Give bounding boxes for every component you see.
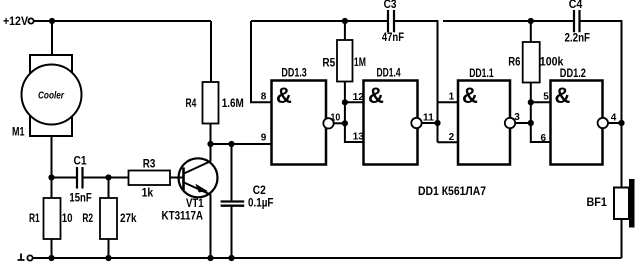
svg-text:C4: C4: [569, 0, 583, 11]
svg-text:1.6M: 1.6M: [222, 97, 244, 110]
bubble DD1.3 out: [323, 118, 333, 128]
wire C3 right to corner: [395, 21, 438, 142]
ground: [18, 254, 25, 261]
wire pin8 feed: [251, 21, 272, 102]
node junction pin12: [342, 99, 348, 105]
svg-text:R3: R3: [143, 157, 156, 170]
svg-text:13: 13: [353, 132, 365, 143]
node junction R2 bottom: [105, 255, 111, 261]
wire to C1: [52, 177, 77, 179]
node junction C1 left: [48, 174, 54, 180]
svg-text:4: 4: [611, 112, 617, 123]
bubble DD1.1 out: [505, 118, 515, 128]
resistor R1: [51, 178, 53, 199]
svg-text:R5: R5: [322, 57, 335, 70]
wire pin9 row: [211, 143, 272, 145]
svg-text:DD1.1: DD1.1: [469, 67, 494, 80]
wire right top rail: [443, 20, 573, 22]
node junction C2 bottom: [228, 255, 234, 261]
wire C4 right to speaker rail: [581, 21, 622, 188]
resistor R2: [108, 178, 110, 199]
svg-text:6: 6: [541, 133, 547, 144]
gate DD1.4: [364, 81, 418, 165]
wire pin5 stub: [531, 101, 551, 103]
svg-text:BF1: BF1: [587, 196, 608, 209]
svg-text:C3: C3: [384, 0, 397, 11]
wire out10: [334, 122, 345, 124]
svg-text:10: 10: [331, 113, 341, 124]
node junction C2 top: [228, 141, 234, 147]
node junction out11: [434, 120, 440, 126]
transistor VT1: [179, 158, 218, 197]
svg-text:C1: C1: [74, 154, 87, 167]
wire out4: [608, 122, 622, 124]
wire emitter down: [210, 195, 212, 259]
svg-text:C2: C2: [253, 184, 267, 197]
node junction R5 top: [342, 18, 348, 24]
svg-text:8: 8: [261, 91, 267, 102]
svg-text:DD1 К561ЛА7: DD1 К561ЛА7: [418, 185, 486, 198]
resistor R6: [530, 21, 532, 42]
svg-text:DD1.4: DD1.4: [377, 67, 401, 80]
svg-text:1: 1: [449, 92, 455, 103]
capacitor C3: [388, 10, 394, 32]
wire motor feed: [51, 21, 53, 55]
wire pin2 stub: [438, 141, 459, 143]
svg-text:47nF: 47nF: [382, 31, 404, 44]
svg-text:&: &: [368, 83, 384, 108]
wire C1 to R3: [84, 177, 129, 179]
wire out3: [515, 122, 531, 124]
gate DD1.2: [551, 81, 603, 165]
wire motor to C1 row: [51, 136, 53, 178]
bubble DD1.2 out: [598, 118, 608, 128]
svg-text:Cooler: Cooler: [38, 89, 65, 101]
wire collector up: [210, 144, 212, 161]
terminal ground: [27, 255, 32, 260]
svg-text:R4: R4: [186, 97, 197, 110]
svg-text:DD1.2: DD1.2: [560, 67, 586, 80]
svg-text:27k: 27k: [120, 212, 137, 225]
svg-text:R2: R2: [82, 212, 93, 225]
wire speaker bottom: [621, 219, 623, 258]
node junction emitter bottom: [207, 255, 213, 261]
svg-text:3: 3: [514, 112, 520, 123]
node junction R2 top: [105, 174, 111, 180]
capacitor C1: [77, 167, 83, 189]
capacitor C4: [574, 10, 580, 32]
capacitor C2: [231, 144, 233, 200]
node junction out4: [618, 120, 624, 126]
svg-text:5: 5: [543, 92, 549, 103]
gate DD1.1: [458, 81, 510, 165]
resistor R3: [129, 171, 171, 186]
node junction pin5: [528, 99, 534, 105]
resistor R4: [210, 21, 212, 82]
wire R3 to base: [170, 177, 184, 179]
speaker BF1: [614, 188, 629, 220]
node junction out10: [342, 120, 348, 126]
wire pin1 stub: [438, 101, 459, 103]
wire out11: [422, 122, 438, 124]
terminal +12V: [28, 18, 33, 23]
svg-text:VT1: VT1: [186, 197, 204, 210]
svg-text:10: 10: [62, 212, 73, 225]
wire mid top rail: [251, 20, 387, 22]
svg-text:0.1µF: 0.1µF: [248, 197, 273, 210]
node junction motor feed: [49, 18, 55, 24]
wire pin12 stub: [345, 101, 364, 103]
svg-text:&: &: [555, 83, 571, 108]
node junction R1 bottom: [48, 255, 54, 261]
bubble DD1.4 out: [411, 118, 421, 128]
svg-text:1k: 1k: [142, 187, 154, 200]
wire top-left rail: [34, 20, 211, 22]
svg-text:DD1.3: DD1.3: [281, 67, 307, 80]
svg-text:15nF: 15nF: [69, 192, 91, 205]
svg-text:2: 2: [449, 132, 455, 143]
svg-text:12: 12: [353, 92, 365, 103]
node junction out3: [528, 120, 534, 126]
motor M1 frame: [30, 55, 72, 136]
svg-text:9: 9: [261, 132, 267, 143]
motor M1 circle: [22, 65, 82, 125]
svg-text:1M: 1M: [354, 56, 366, 69]
svg-text:&: &: [462, 83, 478, 108]
svg-text:R1: R1: [29, 212, 40, 225]
svg-text:M1: M1: [12, 126, 25, 139]
svg-text:&: &: [276, 83, 292, 108]
svg-text:R6: R6: [508, 56, 521, 69]
wire bottom rail: [33, 257, 622, 259]
svg-text:+12V: +12V: [3, 15, 28, 28]
svg-text:KT3117A: KT3117A: [162, 209, 204, 222]
svg-text:2.2nF: 2.2nF: [565, 32, 591, 45]
node junction R6 top: [528, 18, 534, 24]
gate DD1.3: [272, 81, 327, 165]
resistor R5: [344, 21, 346, 40]
node junction collector/R4: [207, 141, 213, 147]
svg-text:11: 11: [423, 112, 434, 123]
